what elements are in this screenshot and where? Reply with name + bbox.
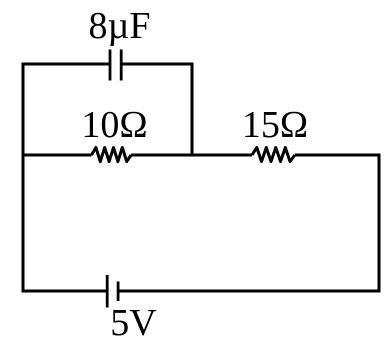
wire: middle horizontal wire right lead bbox=[295, 154, 381, 157]
battery 5V long plate bbox=[106, 275, 109, 308]
capacitor 8uF right plate bbox=[120, 50, 123, 81]
capacitor 8uF left plate bbox=[109, 50, 112, 81]
wire: top wire right segment and small-loop right vertical bbox=[121, 64, 192, 155]
resistor 10ohm zigzag bbox=[92, 148, 132, 162]
wire: middle horizontal wire center segment bbox=[131, 154, 252, 157]
resistor 15ohm zigzag bbox=[252, 148, 295, 162]
svg-text:15Ω: 15Ω bbox=[242, 104, 308, 146]
svg-text:8µF: 8µF bbox=[88, 5, 150, 47]
svg-text:10Ω: 10Ω bbox=[81, 104, 147, 146]
wire top-left loop: top wire left segment, left vertical, bottom wire left segment bbox=[23, 64, 110, 291]
wire: right vertical and bottom wire right segment bbox=[118, 154, 379, 292]
wire: middle horizontal wire left lead bbox=[22, 154, 92, 157]
svg-text:5V: 5V bbox=[110, 302, 157, 344]
battery 5V short plate bbox=[117, 282, 120, 302]
